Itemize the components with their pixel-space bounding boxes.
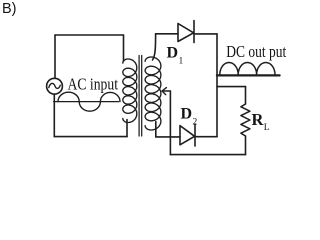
svg-text:R: R xyxy=(252,110,265,129)
DC output waveform baseline xyxy=(217,74,280,76)
svg-text:1: 1 xyxy=(179,57,184,67)
resistor RL xyxy=(241,104,250,136)
wire output node to RL top xyxy=(217,86,246,88)
svg-text:2: 2 xyxy=(193,117,198,127)
wire bottom of primary loop xyxy=(54,136,127,138)
wire D2 cathode to output node xyxy=(195,136,217,138)
svg-text:D: D xyxy=(167,45,179,62)
wire secondary top to D1 anode xyxy=(156,33,178,35)
DC output waveform humps xyxy=(220,62,275,74)
wire primary top lead xyxy=(123,35,125,61)
svg-text:B): B) xyxy=(2,1,17,17)
wire top of primary loop xyxy=(55,34,124,36)
diode D2 xyxy=(180,124,195,146)
wire center tap vertical xyxy=(169,91,171,155)
wire D1 cathode to output node xyxy=(194,33,217,35)
diode D1 xyxy=(178,21,194,43)
svg-text:L: L xyxy=(264,123,270,133)
wire output node vertical xyxy=(216,34,218,137)
wire bottom return xyxy=(170,154,245,156)
input sine wave axis xyxy=(54,101,119,103)
transformer T1 secondary winding xyxy=(145,57,161,130)
wire left vertical lower xyxy=(53,94,55,136)
wire secondary bottom lead xyxy=(155,122,157,137)
transformer T1 core xyxy=(139,56,142,137)
svg-text:DC out put: DC out put xyxy=(226,42,286,61)
wire left vertical upper xyxy=(54,35,56,78)
svg-text:D: D xyxy=(181,105,193,122)
input sine wave xyxy=(58,92,120,111)
wire RL top lead xyxy=(245,87,247,104)
wire primary bottom lead xyxy=(126,120,128,137)
wire RL bottom lead xyxy=(245,136,247,155)
transformer T1 primary winding xyxy=(123,59,137,123)
svg-text:AC input: AC input xyxy=(68,74,119,93)
wire secondary top lead xyxy=(153,34,156,60)
AC source V1 xyxy=(47,78,63,94)
center tap arrow xyxy=(162,88,170,95)
wire secondary bottom to D2 anode xyxy=(156,136,180,138)
